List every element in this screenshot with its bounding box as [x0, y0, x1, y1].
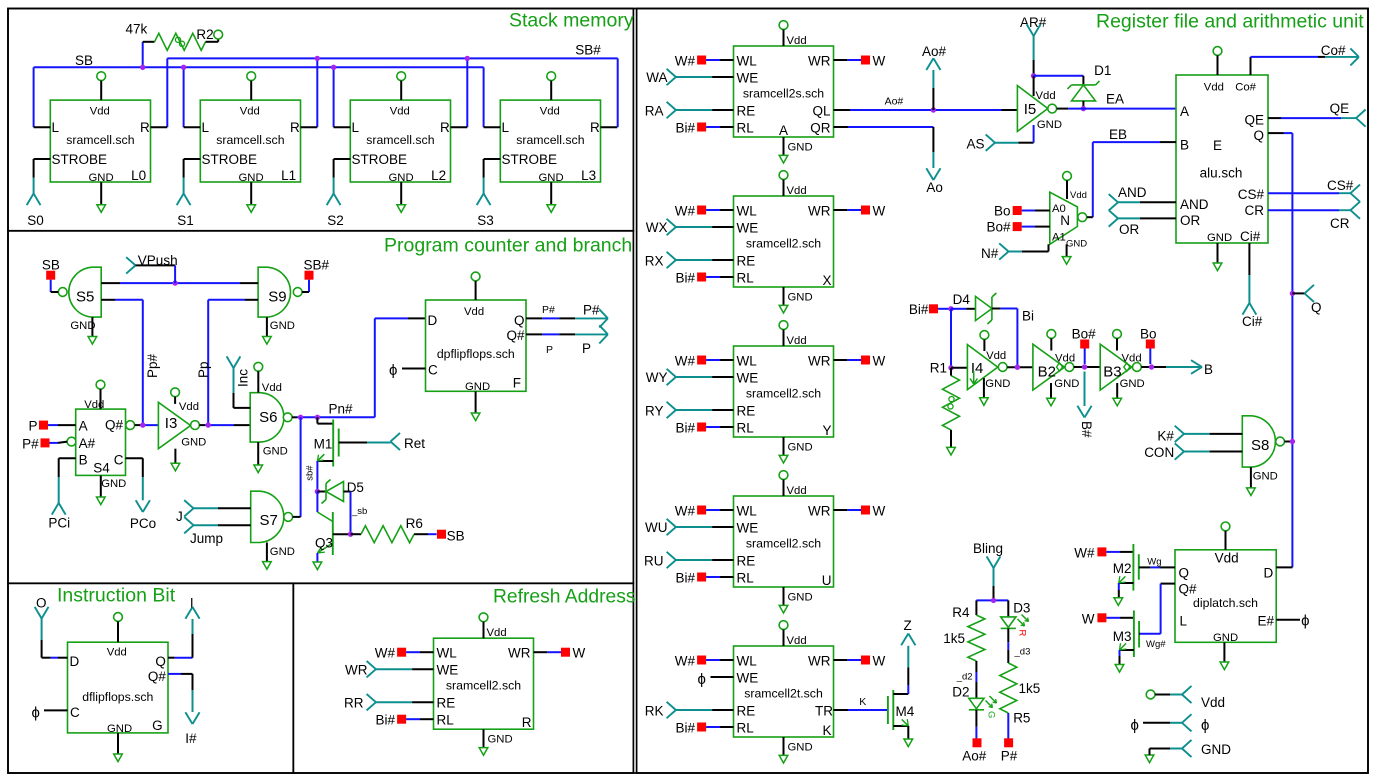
svg-text:F: F — [513, 376, 521, 391]
svg-text:Q#: Q# — [506, 328, 525, 343]
svg-text:EA: EA — [1106, 91, 1124, 106]
svg-text:B: B — [1204, 362, 1213, 377]
svg-text:Vdd: Vdd — [986, 350, 1006, 362]
svg-text:Bi#: Bi# — [675, 721, 695, 736]
svg-text:W#: W# — [675, 654, 696, 669]
svg-text:OR: OR — [1119, 222, 1140, 237]
svg-text:TR: TR — [815, 704, 833, 719]
svg-text:Z: Z — [904, 618, 912, 633]
svg-text:AR#: AR# — [1020, 15, 1047, 30]
svg-text:Vdd: Vdd — [90, 105, 110, 117]
svg-text:Bling: Bling — [973, 541, 1003, 556]
svg-text:Pn#: Pn# — [329, 402, 354, 417]
svg-text:Inc: Inc — [236, 369, 251, 387]
svg-text:Vdd: Vdd — [787, 485, 807, 497]
svg-text:PCo: PCo — [130, 516, 156, 531]
svg-text:Q#: Q# — [1179, 581, 1198, 596]
svg-text:I: I — [190, 596, 194, 611]
svg-text:RE: RE — [737, 104, 756, 119]
svg-text:GND: GND — [181, 437, 206, 449]
svg-text:P: P — [28, 419, 37, 434]
svg-text:R4: R4 — [952, 605, 970, 620]
svg-text:_d2: _d2 — [956, 672, 973, 683]
svg-text:Vdd: Vdd — [787, 335, 807, 347]
svg-text:Stack memory: Stack memory — [509, 10, 634, 32]
svg-text:WR: WR — [508, 646, 531, 661]
svg-text:WE: WE — [737, 521, 759, 536]
svg-text:WE: WE — [737, 221, 759, 236]
svg-text:Ao#: Ao# — [885, 96, 904, 108]
svg-text:D: D — [70, 654, 80, 669]
svg-text:G: G — [986, 711, 997, 718]
svg-text:A: A — [79, 419, 88, 434]
svg-text:D4: D4 — [953, 292, 971, 307]
svg-text:Co#: Co# — [1235, 81, 1256, 93]
svg-text:Wg: Wg — [1147, 557, 1161, 568]
svg-text:W#: W# — [375, 646, 396, 661]
svg-text:RE: RE — [737, 404, 756, 419]
svg-text:D1: D1 — [1094, 63, 1111, 78]
svg-text:M4: M4 — [896, 704, 915, 719]
svg-text:Wg#: Wg# — [1146, 639, 1166, 650]
svg-text:GND: GND — [488, 734, 513, 746]
svg-text:STROBE: STROBE — [52, 152, 108, 167]
svg-text:EB: EB — [1109, 127, 1127, 142]
svg-text:Vdd: Vdd — [84, 399, 104, 411]
svg-text:Bi#: Bi# — [675, 421, 695, 436]
svg-text:A: A — [779, 123, 788, 138]
svg-text:L: L — [52, 120, 60, 135]
svg-text:AND: AND — [1118, 185, 1147, 200]
svg-text:P: P — [546, 344, 553, 356]
svg-text:Vdd: Vdd — [1201, 695, 1225, 710]
svg-text:S9: S9 — [268, 289, 286, 306]
svg-text:O: O — [36, 596, 47, 611]
svg-text:1k5: 1k5 — [943, 631, 965, 646]
svg-text:D: D — [428, 313, 438, 328]
svg-text:E#: E# — [1257, 614, 1274, 629]
svg-text:WX: WX — [646, 220, 668, 235]
svg-text:Vdd: Vdd — [787, 35, 807, 47]
svg-text:GND: GND — [101, 478, 126, 490]
svg-text:sramcell.sch: sramcell.sch — [516, 133, 584, 147]
svg-text:GND: GND — [1120, 378, 1145, 390]
svg-text:ϕ: ϕ — [698, 671, 706, 688]
svg-text:WA: WA — [646, 70, 667, 85]
svg-text:W: W — [573, 646, 586, 661]
svg-text:WL: WL — [737, 654, 758, 669]
svg-text:GND: GND — [1037, 119, 1062, 131]
svg-text:M3: M3 — [1113, 629, 1132, 644]
svg-text:Jump: Jump — [190, 531, 223, 546]
svg-text:RL: RL — [737, 271, 755, 286]
svg-text:Bi#: Bi# — [675, 271, 695, 286]
svg-text:X: X — [822, 273, 831, 288]
svg-text:WR: WR — [808, 204, 831, 219]
svg-text:R2: R2 — [196, 27, 213, 42]
svg-text:ϕ: ϕ — [389, 362, 397, 379]
svg-text:sramcell2.sch: sramcell2.sch — [746, 387, 821, 401]
svg-text:Vdd: Vdd — [179, 401, 199, 413]
svg-text:Ao#: Ao# — [962, 749, 987, 764]
svg-text:Bi#: Bi# — [375, 713, 395, 728]
svg-text:L0: L0 — [131, 168, 146, 183]
svg-text:P#: P# — [22, 436, 39, 451]
svg-text:Q: Q — [1179, 566, 1190, 581]
svg-text:SB: SB — [75, 53, 93, 68]
svg-text:S4: S4 — [93, 461, 110, 476]
svg-text:CR: CR — [1245, 203, 1265, 218]
svg-text:GND: GND — [788, 142, 813, 154]
svg-text:Vdd: Vdd — [487, 627, 507, 639]
svg-text:K#: K# — [1157, 428, 1174, 443]
svg-text:OR: OR — [1180, 213, 1201, 228]
svg-text:Instruction Bit: Instruction Bit — [57, 585, 176, 607]
svg-text:Vdd: Vdd — [787, 185, 807, 197]
svg-text:GND: GND — [788, 592, 813, 604]
svg-text:Co#: Co# — [1321, 43, 1346, 58]
svg-text:Bi: Bi — [1022, 309, 1034, 324]
svg-text:QR: QR — [810, 121, 831, 136]
svg-text:GND: GND — [1207, 232, 1232, 244]
svg-text:QL: QL — [812, 104, 831, 119]
svg-text:WR: WR — [808, 354, 831, 369]
svg-text:W: W — [1082, 611, 1095, 626]
svg-text:Pp#: Pp# — [145, 353, 160, 378]
svg-text:R6: R6 — [406, 516, 423, 531]
svg-text:A: A — [1180, 104, 1189, 119]
svg-text:C: C — [70, 705, 80, 720]
svg-text:S1: S1 — [177, 213, 194, 228]
svg-text:W: W — [873, 654, 886, 669]
svg-text:RL: RL — [437, 713, 455, 728]
svg-text:dflipflops.sch: dflipflops.sch — [82, 690, 153, 704]
svg-text:RL: RL — [737, 571, 755, 586]
svg-text:Vdd: Vdd — [1215, 550, 1239, 565]
svg-text:GND: GND — [1054, 378, 1079, 390]
svg-text:D: D — [1264, 566, 1274, 581]
svg-text:Vdd: Vdd — [1122, 353, 1142, 365]
svg-text:L3: L3 — [581, 168, 596, 183]
svg-text:sramcell2.sch: sramcell2.sch — [446, 679, 521, 693]
svg-text:GND: GND — [1253, 470, 1278, 482]
svg-text:S6: S6 — [259, 409, 277, 426]
svg-text:SB: SB — [447, 529, 465, 544]
svg-text:I5: I5 — [1024, 101, 1037, 118]
svg-text:WU: WU — [645, 520, 668, 535]
svg-text:STROBE: STROBE — [202, 152, 258, 167]
svg-text:S5: S5 — [76, 289, 94, 306]
svg-text:L: L — [202, 120, 210, 135]
svg-text:C: C — [114, 453, 124, 468]
svg-text:U: U — [822, 573, 832, 588]
svg-text:S8: S8 — [1251, 437, 1269, 454]
svg-text:Vdd: Vdd — [787, 635, 807, 647]
svg-text:sb#: sb# — [305, 465, 316, 481]
svg-text:Refresh Address: Refresh Address — [493, 586, 636, 607]
svg-text:GND: GND — [1201, 742, 1231, 757]
svg-text:Vdd: Vdd — [464, 306, 484, 318]
svg-text:Vdd: Vdd — [1036, 90, 1056, 102]
svg-text:P#: P# — [542, 304, 555, 316]
svg-text:W#: W# — [675, 54, 696, 69]
svg-text:G: G — [152, 718, 163, 733]
svg-text:sramcell2t.sch: sramcell2t.sch — [744, 687, 823, 701]
svg-text:W: W — [873, 204, 886, 219]
svg-text:GND: GND — [788, 442, 813, 454]
svg-text:sramcell2.sch: sramcell2.sch — [746, 537, 821, 551]
svg-text:GND: GND — [465, 381, 490, 393]
svg-text:R: R — [140, 120, 150, 135]
svg-text:E: E — [1213, 138, 1222, 153]
svg-text:Bo: Bo — [1140, 327, 1157, 342]
svg-text:W#: W# — [1074, 545, 1095, 560]
svg-text:Bo#: Bo# — [1072, 327, 1097, 342]
svg-text:_d3: _d3 — [1014, 647, 1031, 658]
svg-text:Q#: Q# — [105, 418, 124, 433]
svg-text:WY: WY — [646, 370, 668, 385]
svg-text:Q: Q — [514, 313, 525, 328]
svg-text:R: R — [440, 120, 450, 135]
svg-text:RK: RK — [645, 704, 664, 719]
svg-text:RE: RE — [737, 704, 756, 719]
svg-text:L1: L1 — [281, 168, 296, 183]
svg-text:diplatch.sch: diplatch.sch — [1193, 596, 1258, 610]
svg-text:I4: I4 — [971, 360, 984, 377]
svg-text:GND: GND — [270, 546, 295, 558]
svg-text:GND: GND — [985, 378, 1010, 390]
svg-text:AS: AS — [967, 136, 985, 151]
svg-text:N#: N# — [981, 246, 999, 261]
svg-text:D3: D3 — [1013, 600, 1030, 615]
svg-text:Vdd: Vdd — [390, 105, 410, 117]
svg-text:W: W — [873, 54, 886, 69]
svg-text:I3: I3 — [165, 415, 178, 432]
svg-text:RY: RY — [645, 404, 664, 419]
svg-text:WR: WR — [808, 504, 831, 519]
svg-text:M2: M2 — [1113, 561, 1132, 576]
svg-text:1k5: 1k5 — [1019, 681, 1041, 696]
svg-text:A1: A1 — [1052, 232, 1066, 244]
svg-text:Ao#: Ao# — [922, 44, 947, 59]
svg-text:SB#: SB# — [304, 258, 330, 273]
svg-text:Vdd: Vdd — [1055, 353, 1075, 365]
svg-text:D5: D5 — [347, 480, 364, 495]
svg-text:RR: RR — [344, 696, 364, 711]
svg-text:WL: WL — [737, 504, 758, 519]
svg-text:B#: B# — [1079, 421, 1094, 438]
svg-text:CR: CR — [1330, 216, 1350, 231]
svg-text:RL: RL — [737, 721, 755, 736]
svg-text:WL: WL — [437, 646, 458, 661]
svg-text:Q#: Q# — [148, 669, 167, 684]
svg-text:Ret: Ret — [404, 436, 425, 451]
svg-text:S0: S0 — [27, 213, 44, 228]
svg-text:WE: WE — [737, 71, 759, 86]
svg-text:WL: WL — [737, 354, 758, 369]
svg-text:R: R — [522, 715, 532, 730]
svg-text:AND: AND — [1180, 197, 1209, 212]
svg-text:P#: P# — [583, 303, 600, 318]
svg-text:RE: RE — [737, 254, 756, 269]
svg-text:S7: S7 — [260, 512, 278, 529]
svg-text:sramcell.sch: sramcell.sch — [66, 133, 134, 147]
svg-text:RX: RX — [645, 254, 664, 269]
svg-text:K: K — [822, 723, 831, 738]
svg-text:STROBE: STROBE — [502, 152, 558, 167]
svg-text:Pp: Pp — [196, 361, 211, 378]
svg-text:ϕ: ϕ — [1131, 717, 1139, 734]
svg-text:S2: S2 — [327, 213, 344, 228]
svg-text:ϕ: ϕ — [1201, 717, 1209, 734]
svg-text:CS#: CS# — [1238, 187, 1265, 202]
svg-text:Vdd: Vdd — [262, 382, 282, 394]
svg-text:WL: WL — [737, 54, 758, 69]
svg-text:RL: RL — [737, 121, 755, 136]
svg-text:sramcell.sch: sramcell.sch — [216, 133, 284, 147]
svg-text:47k: 47k — [126, 22, 148, 37]
svg-text:Y: Y — [822, 423, 831, 438]
svg-text:Bi#: Bi# — [909, 302, 929, 317]
svg-text:N: N — [1060, 213, 1070, 228]
svg-text:GND: GND — [263, 445, 288, 457]
svg-text:RL: RL — [737, 421, 755, 436]
svg-text:D2: D2 — [952, 684, 969, 699]
svg-text:M1: M1 — [314, 437, 333, 452]
svg-text:R: R — [290, 120, 300, 135]
svg-text:PCi: PCi — [48, 515, 70, 530]
svg-text:CS#: CS# — [1327, 178, 1354, 193]
svg-text:QE: QE — [1244, 113, 1264, 128]
svg-text:P: P — [582, 341, 591, 356]
svg-text:alu.sch: alu.sch — [1200, 166, 1243, 181]
svg-text:Ci#: Ci# — [1240, 229, 1261, 244]
svg-text:Q3: Q3 — [315, 536, 333, 551]
svg-text:sramcell.sch: sramcell.sch — [366, 133, 434, 147]
svg-text:L2: L2 — [431, 168, 446, 183]
svg-text:A#: A# — [79, 436, 96, 451]
svg-text:B: B — [79, 453, 88, 468]
svg-text:SB: SB — [42, 258, 60, 273]
svg-text:CON: CON — [1144, 445, 1174, 460]
svg-text:K: K — [859, 696, 866, 708]
svg-text:I#: I# — [185, 731, 197, 746]
svg-text:STROBE: STROBE — [352, 152, 408, 167]
svg-text:W#: W# — [675, 204, 696, 219]
svg-text:Program counter and branch: Program counter and branch — [384, 235, 632, 257]
svg-text:WR: WR — [808, 654, 831, 669]
svg-text:P#: P# — [1001, 749, 1018, 764]
svg-text:dpflipflops.sch: dpflipflops.sch — [437, 347, 515, 361]
svg-text:Vdd: Vdd — [240, 105, 260, 117]
svg-text:WE: WE — [437, 663, 459, 678]
svg-text:Vdd: Vdd — [1204, 81, 1224, 93]
svg-text:WR: WR — [808, 54, 831, 69]
svg-text:Vdd: Vdd — [107, 647, 127, 659]
svg-text:GND: GND — [1066, 239, 1087, 250]
svg-text:SB#: SB# — [575, 43, 601, 58]
svg-text:GND: GND — [788, 742, 813, 754]
svg-text:L: L — [1180, 614, 1188, 629]
svg-text:Vdd: Vdd — [540, 105, 560, 117]
svg-text:L: L — [352, 120, 360, 135]
svg-text:Bi#: Bi# — [675, 571, 695, 586]
svg-text:Ci#: Ci# — [1242, 314, 1263, 329]
svg-text:Q: Q — [1253, 128, 1264, 143]
svg-text:Q: Q — [155, 654, 166, 669]
svg-text:Bi#: Bi# — [675, 121, 695, 136]
svg-text:J: J — [176, 509, 183, 524]
svg-text:C: C — [428, 363, 438, 378]
svg-text:S3: S3 — [477, 213, 494, 228]
svg-text:W#: W# — [675, 504, 696, 519]
svg-text:Q: Q — [1311, 300, 1322, 315]
svg-text:Vdd: Vdd — [1070, 190, 1087, 201]
svg-text:_sb: _sb — [351, 506, 367, 517]
svg-text:R: R — [1017, 630, 1028, 637]
svg-text:sramcell2s.sch: sramcell2s.sch — [743, 87, 824, 101]
svg-text:ϕ: ϕ — [1301, 613, 1309, 630]
svg-text:W#: W# — [675, 354, 696, 369]
svg-text:GND: GND — [1213, 632, 1238, 644]
svg-text:R: R — [590, 120, 600, 135]
svg-text:sramcell2.sch: sramcell2.sch — [746, 237, 821, 251]
svg-text:WE: WE — [737, 371, 759, 386]
svg-text:RA: RA — [645, 104, 664, 119]
svg-text:R5: R5 — [1013, 711, 1030, 726]
svg-text:RU: RU — [644, 554, 664, 569]
svg-text:L: L — [502, 120, 510, 135]
svg-text:R1: R1 — [930, 360, 947, 375]
svg-text:GND: GND — [788, 292, 813, 304]
svg-text:GND: GND — [270, 320, 295, 332]
svg-text:ϕ: ϕ — [32, 705, 40, 722]
svg-text:WE: WE — [737, 671, 759, 686]
svg-text:GND: GND — [107, 723, 132, 735]
svg-text:Ao: Ao — [926, 180, 943, 195]
svg-text:RE: RE — [437, 696, 456, 711]
svg-text:B2: B2 — [1038, 363, 1056, 380]
svg-text:W: W — [873, 354, 886, 369]
svg-text:WR: WR — [345, 662, 368, 677]
svg-text:Bo: Bo — [994, 204, 1011, 219]
svg-text:QE: QE — [1330, 101, 1350, 116]
svg-text:Register file and arithmetic u: Register file and arithmetic unit — [1096, 11, 1364, 33]
svg-text:B: B — [1180, 138, 1189, 153]
svg-text:WL: WL — [737, 204, 758, 219]
svg-text:Bo#: Bo# — [986, 220, 1011, 235]
svg-text:W: W — [873, 504, 886, 519]
svg-text:RE: RE — [737, 554, 756, 569]
